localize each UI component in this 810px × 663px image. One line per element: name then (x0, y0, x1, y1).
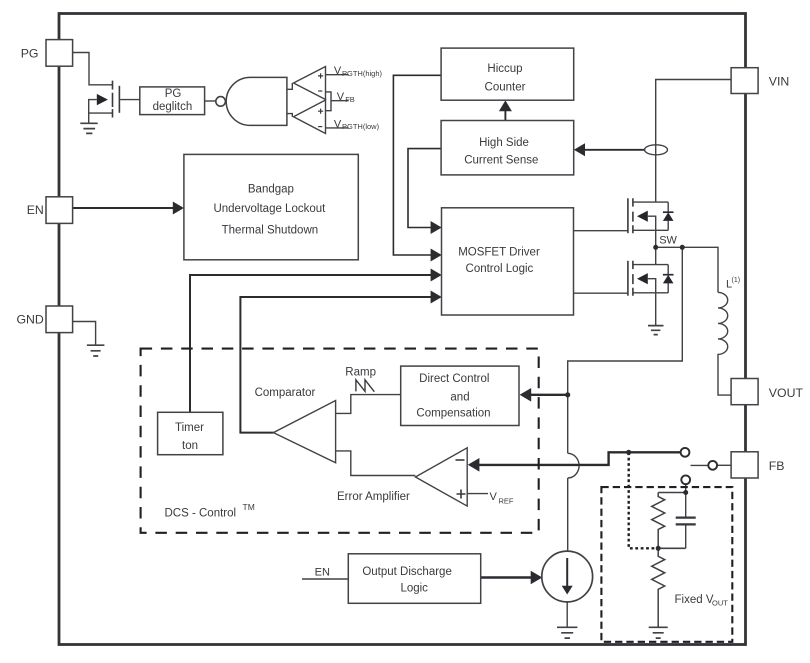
svg-text:V: V (334, 65, 342, 77)
svg-text:REF: REF (499, 497, 514, 506)
svg-text:Direct Control: Direct Control (419, 373, 489, 385)
svg-text:OUT: OUT (712, 599, 728, 608)
svg-text:V: V (337, 91, 345, 103)
svg-text:VOUT: VOUT (769, 386, 804, 400)
svg-text:Hiccup: Hiccup (487, 63, 522, 75)
svg-text:MOSFET Driver: MOSFET Driver (458, 246, 540, 258)
svg-text:PG: PG (21, 47, 39, 61)
svg-text:(1): (1) (732, 277, 741, 284)
svg-text:PGTH(low): PGTH(low) (342, 122, 380, 131)
svg-text:Undervoltage Lockout: Undervoltage Lockout (213, 203, 326, 215)
svg-text:SW: SW (659, 235, 677, 247)
svg-text:Thermal Shutdown: Thermal Shutdown (222, 224, 319, 236)
svg-text:V: V (490, 491, 498, 503)
svg-text:and: and (450, 392, 469, 404)
svg-text:Logic: Logic (400, 583, 428, 595)
svg-text:DCS - Control: DCS - Control (165, 508, 237, 520)
svg-text:FB: FB (345, 95, 355, 104)
svg-text:Counter: Counter (485, 81, 526, 93)
svg-text:TM: TM (243, 502, 255, 512)
svg-text:Timer: Timer (175, 422, 204, 434)
svg-text:EN: EN (27, 203, 44, 217)
svg-text:V: V (334, 118, 342, 130)
svg-text:Bandgap: Bandgap (248, 183, 294, 195)
svg-text:Current Sense: Current Sense (464, 154, 538, 166)
svg-text:PG: PG (165, 88, 182, 100)
svg-text:GND: GND (16, 313, 43, 327)
svg-text:Fixed V: Fixed V (675, 594, 714, 606)
svg-text:FB: FB (769, 459, 785, 473)
svg-text:Output Discharge: Output Discharge (362, 566, 452, 578)
svg-text:Ramp: Ramp (345, 367, 376, 379)
svg-text:VIN: VIN (769, 74, 790, 88)
svg-text:Error Amplifier: Error Amplifier (337, 491, 410, 503)
svg-text:High Side: High Side (479, 137, 529, 149)
svg-text:Comparator: Comparator (255, 387, 316, 399)
svg-text:Compensation: Compensation (416, 408, 490, 420)
svg-text:Control Logic: Control Logic (466, 263, 534, 275)
svg-text:deglitch: deglitch (153, 101, 193, 113)
svg-text:PGTH(high): PGTH(high) (342, 69, 383, 78)
svg-text:EN: EN (315, 566, 330, 578)
svg-text:ton: ton (182, 440, 198, 452)
